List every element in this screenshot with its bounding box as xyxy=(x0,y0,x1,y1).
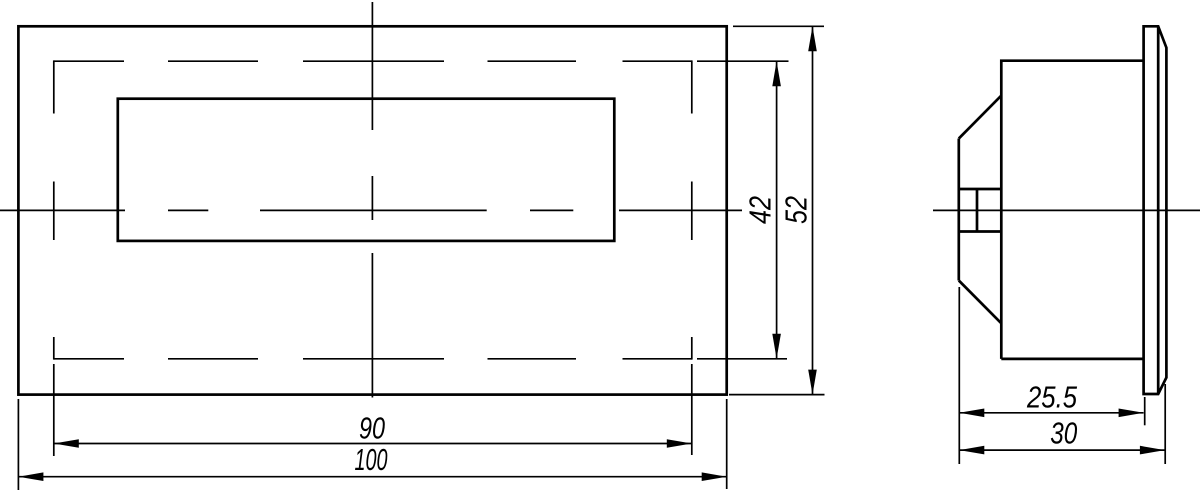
svg-text:25.5: 25.5 xyxy=(1026,380,1077,415)
side view: flange chamfer projection line xyxy=(1157,26,1160,394)
dimension 100: extension line left xyxy=(17,399,19,490)
dimension 90: dimension line xyxy=(54,443,692,445)
side view: mounting clip face vertical xyxy=(957,139,960,281)
dimension 90: arrowhead right xyxy=(667,439,692,448)
dimension 52: extension line bottom xyxy=(729,394,825,396)
dimension 90: extension line right xyxy=(691,364,693,455)
svg-text:90: 90 xyxy=(359,411,385,446)
front view: inner display window rectangle xyxy=(118,99,615,241)
dimension 52: dimension line xyxy=(812,26,814,394)
dimension 25.5: arrowhead right xyxy=(1119,409,1144,418)
dimension 30: dimension line xyxy=(959,449,1165,451)
front view: dashed body outline left edge xyxy=(53,60,55,359)
side view: clamp screw box top xyxy=(959,188,1002,191)
side view: body outline xyxy=(1001,61,1143,359)
dimension 100: dimension line xyxy=(18,476,726,478)
front view: horizontal centerline xyxy=(0,209,742,211)
svg-text:52: 52 xyxy=(779,196,814,224)
dimension 30: arrowhead left xyxy=(959,446,984,455)
side view: front bezel flange outline with chamfered right corners xyxy=(1144,26,1167,394)
dimension 42: arrowhead down xyxy=(772,334,781,359)
svg-text:30: 30 xyxy=(1050,415,1077,450)
dimension 90: extension line left xyxy=(53,364,55,456)
dimension 52: extension line top xyxy=(733,25,824,27)
side view: horizontal centerline xyxy=(933,209,1200,211)
dimension 52: arrowhead down xyxy=(808,370,817,395)
side view: clamp screw divider xyxy=(976,189,979,232)
dimension 42: extension line bottom xyxy=(697,358,787,360)
dimension 25.5 / 30: extension line left xyxy=(958,287,960,464)
dimension 25.5: dimension line xyxy=(959,412,1143,414)
dimension 42: extension line top xyxy=(697,60,789,62)
svg-text:100: 100 xyxy=(355,442,388,477)
dimension 25.5: arrowhead left xyxy=(959,409,984,418)
front view: dashed body outline right edge xyxy=(691,60,693,359)
dimension 100: arrowhead left xyxy=(18,472,43,481)
front view: dashed body outline (hidden line) top edge xyxy=(54,60,692,62)
dimension 30: arrowhead right xyxy=(1140,446,1165,455)
dimension 30: extension line right xyxy=(1164,384,1166,464)
dimension 100: extension line right xyxy=(726,399,728,489)
dimension 90: arrowhead left xyxy=(54,439,79,448)
dimension 25.5: extension line right xyxy=(1144,397,1146,425)
dimension 42: arrowhead up xyxy=(772,61,781,86)
svg-text:42: 42 xyxy=(743,196,778,224)
side view: mounting clip lower diagonal xyxy=(959,281,1002,324)
front view: outer panel frame rectangle 100x52 xyxy=(18,26,726,394)
front view: dashed body outline bottom edge xyxy=(54,358,692,360)
side view: clamp screw box bottom xyxy=(959,230,1002,233)
dimension 52: arrowhead up xyxy=(808,26,817,51)
dimension 100: arrowhead right xyxy=(702,472,727,481)
dimension 42: dimension line xyxy=(776,61,778,359)
front view: vertical centerline xyxy=(371,2,373,398)
side view: mounting clip upper diagonal xyxy=(959,96,1002,139)
